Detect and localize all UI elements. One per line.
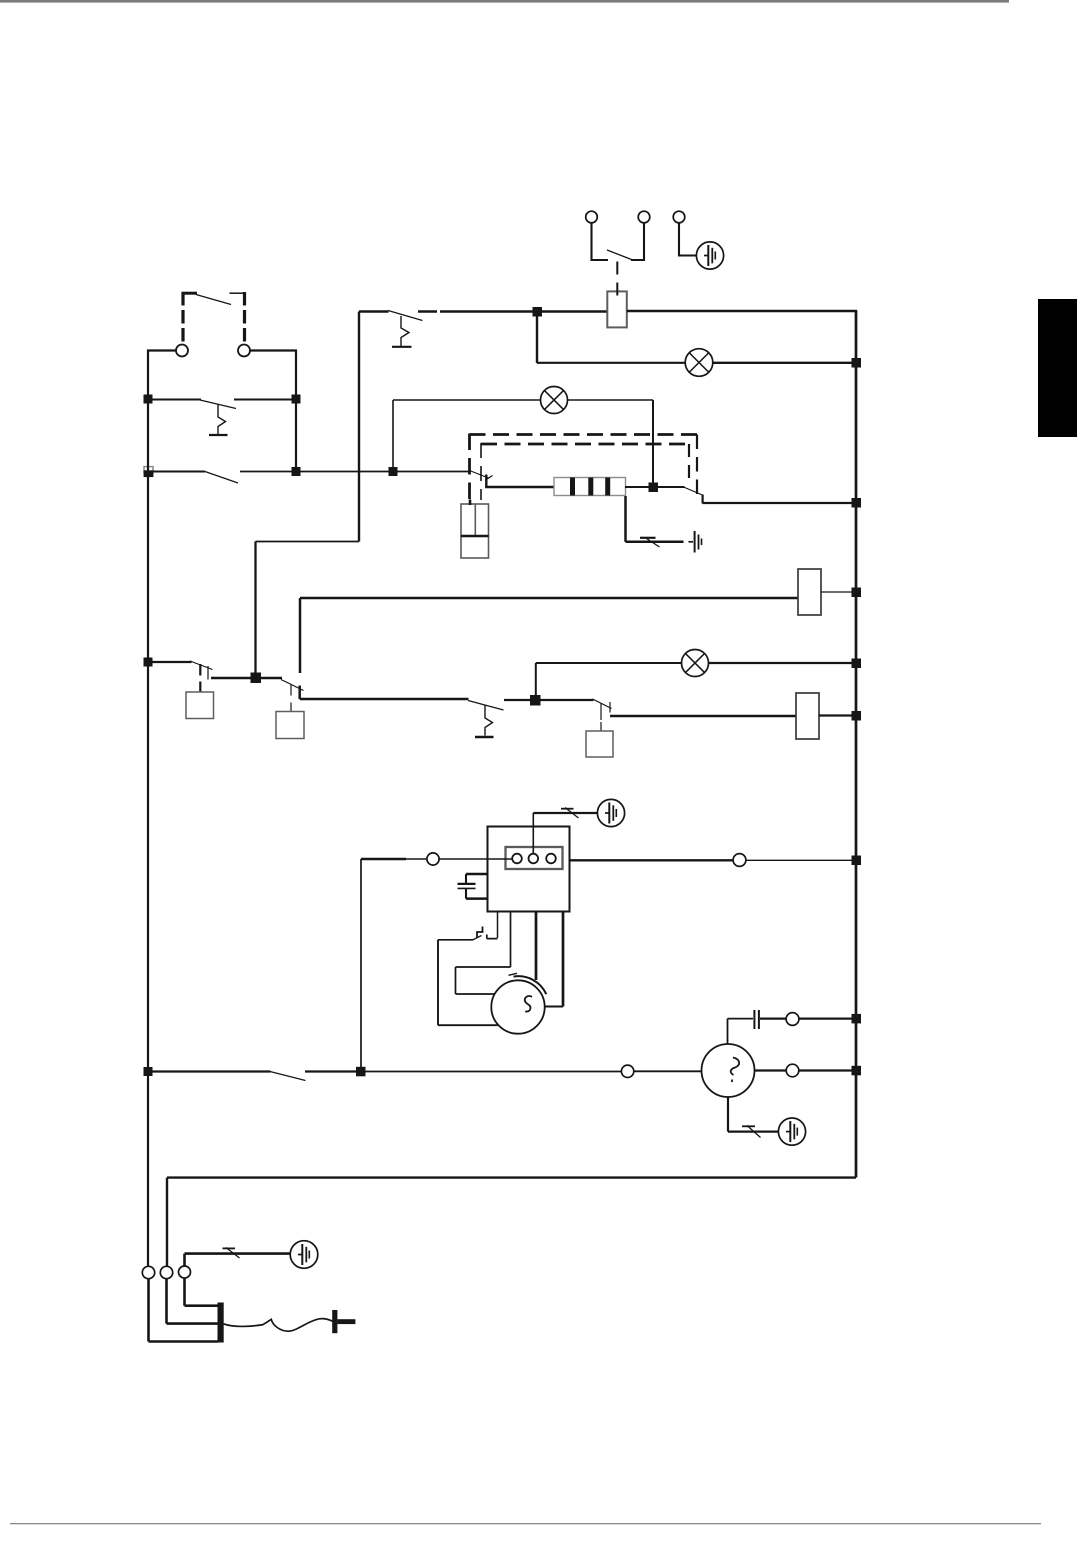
ground G5 xyxy=(290,1241,318,1269)
wire row471 left xyxy=(153,471,205,473)
lamp L3 xyxy=(682,650,709,677)
harness box inner right xyxy=(688,444,690,484)
disconnect tick row541 xyxy=(640,537,656,539)
disconnect slash row1253 xyxy=(226,1248,240,1259)
junction x296 row471 xyxy=(292,467,301,476)
wire x300 drop to switch xyxy=(299,598,302,673)
key switch terminal B xyxy=(638,211,650,223)
points P1 cam mark xyxy=(477,927,483,938)
points P1 right contact xyxy=(487,935,498,939)
motor M1 arc tick xyxy=(509,973,518,975)
terminal T6 xyxy=(786,1013,799,1026)
wire regulator ground drop xyxy=(532,813,534,854)
switch S8 blade xyxy=(270,1072,306,1081)
wire vertical x296 xyxy=(295,351,297,473)
wire row400 left xyxy=(393,399,541,401)
wire row1072 mid xyxy=(305,1070,361,1072)
wire T5 to bus xyxy=(799,1069,857,1071)
chassis bolt arm xyxy=(337,1319,355,1324)
fusible link holder upper cell xyxy=(461,504,489,536)
switch S5 blade xyxy=(190,661,213,670)
switch S4 contact stub xyxy=(701,495,703,504)
breaker B1 heater zigzag xyxy=(218,405,226,435)
fuse F1 body xyxy=(607,291,627,327)
header rule xyxy=(0,0,1009,3)
key switch blade xyxy=(607,250,632,260)
wire row363 right xyxy=(713,362,857,364)
disconnect tick row813 xyxy=(561,808,574,810)
regulator pin lead b xyxy=(510,912,512,968)
wire T6 to bus xyxy=(799,1017,857,1019)
harness box inner top xyxy=(481,443,689,446)
lamp L2 xyxy=(541,387,568,414)
terminal T7 xyxy=(733,854,746,867)
switch S3 contact stub xyxy=(485,475,487,488)
battery lead 1 xyxy=(149,1279,219,1342)
wire row662 xyxy=(148,661,192,663)
fusible link divider xyxy=(474,504,476,536)
key switch dashed drop xyxy=(616,262,618,297)
capacitor C1 plate bottom xyxy=(458,887,476,889)
wire row471 to x393 xyxy=(296,471,393,473)
switch S3 blade xyxy=(470,471,489,479)
breaker B1 base tick xyxy=(209,434,228,436)
capacitor C1 stubs xyxy=(466,874,488,899)
wire T2 to vertical xyxy=(250,349,297,351)
fuse element 2 xyxy=(588,478,593,496)
wire row678 xyxy=(211,677,282,679)
regulator pin 1 xyxy=(512,854,522,864)
disconnect slash row1131 xyxy=(747,1126,761,1138)
connector box K2 xyxy=(276,712,304,739)
points P1 left lead xyxy=(438,939,473,941)
junction left rail row662 xyxy=(144,658,153,667)
switch S7 blade xyxy=(593,699,612,709)
wire relay R2 to bus xyxy=(819,714,857,716)
switch S1 top tick xyxy=(182,292,198,295)
wire to fuse block xyxy=(485,486,554,489)
wire row399 right xyxy=(234,399,296,401)
wire x361 drop xyxy=(360,859,362,1072)
wire row503 to bus xyxy=(703,502,857,504)
switch S5 tick 2 xyxy=(207,666,209,680)
ground G1 xyxy=(696,242,723,269)
connector box K1 xyxy=(186,692,214,719)
switch S2 blade xyxy=(205,472,238,484)
regulator pin 2 xyxy=(529,854,539,864)
wire row363 left xyxy=(537,362,685,364)
ground strap wavy cable xyxy=(224,1319,333,1332)
wire lamp1 feed vertical xyxy=(536,312,538,364)
wire T3 into regulator xyxy=(439,858,512,860)
breaker B2 top lead xyxy=(359,310,389,313)
wire row311 fuse to bus xyxy=(627,310,857,312)
junction x296 row399 xyxy=(292,395,301,404)
connector box K3 xyxy=(586,731,613,757)
breaker B2 blade xyxy=(388,311,423,321)
battery terminal 3 xyxy=(179,1266,191,1278)
wire C2 to T6 xyxy=(760,1017,786,1019)
breaker B3 blade xyxy=(468,701,504,711)
switch S4 blade xyxy=(684,487,704,496)
capacitor C2 plate left xyxy=(753,1010,755,1029)
switch S5 tick 1 xyxy=(199,664,201,676)
open terminal square row471 xyxy=(144,467,153,473)
key switch terminal C xyxy=(673,211,685,223)
regulator box U1 xyxy=(488,827,570,912)
disconnect tick row1253 xyxy=(223,1247,236,1249)
generator squiggle xyxy=(731,1058,739,1083)
junction bus row592 xyxy=(852,588,862,598)
wire generator ground drop xyxy=(728,1097,778,1132)
junction row700 x535 xyxy=(530,695,541,706)
breaker B2 base tick xyxy=(392,346,412,348)
regulator pin lead c xyxy=(535,912,538,981)
terminal T3 xyxy=(427,853,439,865)
ground G3 xyxy=(597,799,624,826)
disconnect tick row1131 xyxy=(742,1125,755,1127)
wire row471 to dashed box xyxy=(393,471,470,473)
wire row663 right xyxy=(709,662,857,664)
wire row700 mid xyxy=(504,699,536,701)
fuse block body xyxy=(554,478,626,496)
junction bus row363 xyxy=(852,358,862,368)
wire row1072 to T4 xyxy=(361,1071,622,1073)
junction bus row1071 xyxy=(852,1066,862,1076)
switch S6 tick xyxy=(290,685,292,696)
fusible link holder lower cell xyxy=(461,536,489,558)
junction left rail row1072 xyxy=(144,1067,153,1076)
terminal T2 xyxy=(238,345,250,357)
disconnect slash row813 xyxy=(565,808,579,819)
ground G2 stub xyxy=(689,541,694,543)
terminal T4 xyxy=(621,1065,633,1077)
switch S1 dashed leg left xyxy=(181,292,184,346)
wire x653 drop xyxy=(652,400,654,487)
wire row399 left xyxy=(148,399,201,401)
battery terminal 1 xyxy=(142,1266,154,1278)
junction bus row663 xyxy=(852,659,862,669)
junction bus row860 xyxy=(852,856,862,866)
switch S6 blade xyxy=(281,680,304,691)
switch S5 lead to box xyxy=(199,682,201,693)
fusible link divider bar xyxy=(461,535,489,537)
wire T3g corner xyxy=(185,1254,291,1266)
footer rule xyxy=(10,1523,1041,1524)
wire interlock from breaker B2 xyxy=(256,541,360,543)
junction bus row1018 xyxy=(852,1014,862,1024)
wire row311 dash after breaker xyxy=(418,310,437,312)
wire generator field corner xyxy=(728,1019,754,1045)
breaker B2 heater zigzag xyxy=(401,316,409,346)
junction left rail row399 xyxy=(144,395,153,404)
wire row400 right xyxy=(568,399,654,401)
switch S1 dashed leg right xyxy=(243,292,246,346)
wire row716 xyxy=(610,715,796,718)
breaker B3 base tick xyxy=(475,736,494,738)
wire rail to T1 xyxy=(147,349,176,351)
junction bus row503 xyxy=(852,498,862,508)
regulator pin lead d xyxy=(562,912,565,1007)
motor M1 body xyxy=(491,980,544,1033)
relay R2 coil xyxy=(796,693,819,739)
wire T4 to generator xyxy=(634,1070,702,1072)
wire x393 drop xyxy=(392,400,394,471)
key switch leg B xyxy=(631,223,644,260)
wire row663 left xyxy=(536,662,682,664)
terminal T5 xyxy=(786,1064,799,1077)
page tab xyxy=(1038,299,1077,437)
breaker B3 heater zigzag xyxy=(485,706,493,736)
generator GEN body xyxy=(702,1044,755,1097)
regulator pin lead a xyxy=(497,912,499,939)
wire T7 to bus xyxy=(746,859,857,861)
ground G2 bars xyxy=(694,531,696,553)
wire bus right vertical xyxy=(855,310,858,1177)
ground G4 xyxy=(778,1118,805,1145)
wire lamp3 feed vertical xyxy=(535,663,537,700)
junction x393 row471 xyxy=(389,467,398,476)
key switch leg A xyxy=(592,223,609,260)
motor M1 right stub xyxy=(545,1006,563,1008)
wire condenser loop inner xyxy=(456,967,511,994)
wire row471 mid xyxy=(240,471,296,473)
battery lead 3 xyxy=(185,1278,219,1306)
wire row858 left xyxy=(361,858,406,861)
capacitor C1 leads xyxy=(465,874,467,899)
wire row311 to fuse xyxy=(440,310,607,312)
fuse element 1 xyxy=(570,478,575,496)
chassis bolt vertical bar xyxy=(332,1310,337,1333)
wire row1072 left xyxy=(148,1070,271,1072)
wire condenser loop outer xyxy=(438,940,498,1025)
wire relay R1 to bus xyxy=(821,591,857,593)
disconnect slash row541 xyxy=(647,539,660,548)
switch S6 lead to box xyxy=(290,703,292,712)
breaker B2 corner vertical xyxy=(358,312,360,542)
motor M1 field arc xyxy=(514,976,547,994)
battery lead 2 xyxy=(167,1279,219,1324)
capacitor C2 plate right xyxy=(758,1010,760,1029)
switch S1 right tick xyxy=(230,292,244,294)
motor M1 squiggle xyxy=(525,996,532,1011)
junction bus row716 xyxy=(852,711,862,721)
points P1 blade xyxy=(473,936,482,941)
wire left rail xyxy=(147,350,149,1267)
regulator pin 3 xyxy=(546,854,556,864)
wire fuse block to junction xyxy=(625,486,685,488)
harness box outer right xyxy=(696,435,698,498)
wire fuse block down xyxy=(626,496,684,542)
junction row678 xyxy=(251,673,262,684)
fusible link top stub xyxy=(469,500,472,506)
battery terminal bar xyxy=(218,1303,224,1343)
terminal T1 xyxy=(176,345,188,357)
switch S6 output corner xyxy=(300,686,469,700)
wire generator armature to T5 xyxy=(755,1069,787,1071)
switch S1 blade xyxy=(196,295,231,305)
switch S7 lead to box xyxy=(600,722,602,731)
key switch terminal A xyxy=(586,211,598,223)
harness box outer left xyxy=(468,434,471,501)
wire row598 xyxy=(300,597,798,600)
switch S7 tick 2 xyxy=(609,702,611,713)
fuse element 3 xyxy=(605,478,610,496)
capacitor C1 plate top xyxy=(458,883,476,885)
switch S7 tick 1 xyxy=(600,703,602,720)
wire bottom return xyxy=(167,1178,856,1267)
harness box outer top xyxy=(470,433,698,436)
harness box inner left xyxy=(480,443,482,500)
wire regulator ground lead xyxy=(533,812,597,814)
breaker B1 blade xyxy=(200,400,236,409)
battery terminal 2 xyxy=(160,1266,172,1278)
wire row700 right xyxy=(535,699,594,701)
switch S3 blade tip tick xyxy=(486,476,493,481)
junction x361 row1072 xyxy=(356,1067,366,1077)
junction row311 x537 xyxy=(533,307,543,317)
wire row860 regulator to T7 xyxy=(570,859,734,861)
wire leg C xyxy=(679,223,697,256)
relay R1 coil xyxy=(798,569,821,615)
regulator terminal strip xyxy=(506,847,563,869)
lamp L1 xyxy=(685,349,713,377)
junction x653 row487 xyxy=(649,483,659,493)
